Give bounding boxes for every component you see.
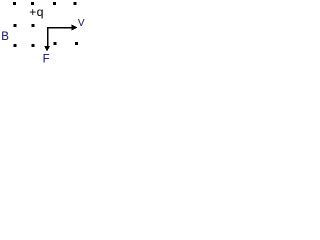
force arrowhead <box>44 46 50 51</box>
field dot row1 col3 <box>53 2 56 5</box>
wire velocity arrow shaft <box>47 27 73 28</box>
svg-text:V: V <box>78 18 85 29</box>
field dot row1 col2 <box>31 2 34 5</box>
field dot row3 col3 <box>53 42 56 45</box>
field dot row2 col2 <box>32 24 35 27</box>
svg-text:F: F <box>43 54 50 65</box>
field dot row3 col2 <box>32 44 35 47</box>
wire force arrow shaft <box>47 27 48 46</box>
velocity arrowhead <box>71 24 77 30</box>
field dot row3 col1 <box>14 44 17 47</box>
svg-text:+: + <box>29 5 36 19</box>
field dot row1 col4 <box>73 2 76 5</box>
field dot row1 col1 <box>13 2 16 5</box>
field dot row2 col1 <box>14 24 17 27</box>
svg-text:q: q <box>37 5 44 19</box>
field dot row3 col4 <box>75 42 78 45</box>
svg-text:B: B <box>1 31 9 43</box>
background <box>0 0 87 64</box>
